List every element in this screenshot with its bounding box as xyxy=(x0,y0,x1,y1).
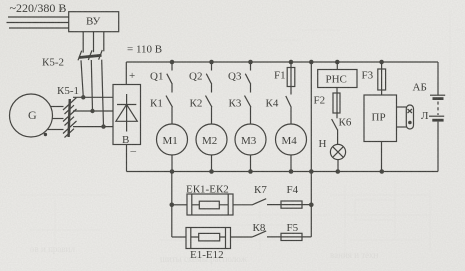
node M3 bottom xyxy=(248,169,253,174)
wire battery top xyxy=(437,62,439,95)
breaker Q1 xyxy=(167,62,173,93)
node F1 top xyxy=(289,60,294,65)
wire PR to bus xyxy=(381,142,383,172)
node F3 top xyxy=(379,60,384,65)
wire phase B input xyxy=(7,22,69,24)
node Q2 top xyxy=(209,60,214,65)
generator G xyxy=(10,94,53,137)
contact K3 xyxy=(245,96,252,124)
node M2 bottom xyxy=(209,169,214,174)
fuse F2 xyxy=(336,88,338,119)
wire to heater E xyxy=(172,236,186,238)
node heater left mid xyxy=(170,203,175,208)
scan noise overlay xyxy=(0,0,1,1)
wire phase C input xyxy=(9,27,69,29)
rectifier unit VU box xyxy=(69,12,119,32)
wire M4 to bus xyxy=(290,155,292,172)
breaker Q3 xyxy=(245,62,251,93)
wire G phase 2 stub xyxy=(53,118,64,120)
wire G phase 1 stub xyxy=(51,106,64,108)
wire PR to connector top xyxy=(397,106,407,108)
node heater feed top xyxy=(309,60,314,65)
wire heater left vertical xyxy=(171,172,173,238)
contactor K5-2 blade 3 xyxy=(99,50,103,60)
wire EK to K7 xyxy=(233,204,252,206)
contactor K5-2 blade 1 xyxy=(78,51,82,61)
rectifier B box xyxy=(113,85,141,145)
battery dashed link xyxy=(437,102,439,116)
contact K8 xyxy=(252,231,266,237)
fuse F1 xyxy=(290,62,292,87)
wire heater feed vertical xyxy=(310,62,312,205)
lamp H xyxy=(330,144,345,159)
wire VU output 3 xyxy=(103,32,105,52)
contactor K5-1 blade 2 xyxy=(63,109,77,126)
contact K1 xyxy=(166,96,173,124)
motor M4 xyxy=(276,124,307,155)
fuse F5 xyxy=(267,205,311,237)
relay RNS box xyxy=(318,70,357,88)
motor M2 xyxy=(196,124,227,155)
node lamp bottom xyxy=(336,169,341,174)
node F4 right xyxy=(309,203,314,208)
wire top bus xyxy=(126,61,438,63)
wire K5-2 pole 3 down xyxy=(102,60,104,127)
wire K5-2 pole 2 down xyxy=(91,60,92,111)
node Q3 top xyxy=(248,60,253,65)
node junction 2 xyxy=(90,109,94,113)
converter PR box xyxy=(364,95,397,142)
wire RNS stub xyxy=(336,62,338,70)
node junction 3 xyxy=(101,124,105,128)
wire phase A input xyxy=(8,16,69,18)
wire G phase 3 stub xyxy=(48,129,64,131)
connector X plug xyxy=(406,105,413,129)
wire M3 to bus xyxy=(250,155,252,172)
node PR bottom xyxy=(380,169,385,174)
node M1 bottom xyxy=(170,169,175,174)
wire M1 to bus xyxy=(171,155,173,172)
wire bottom bus xyxy=(127,171,439,173)
wire VU output 2 xyxy=(93,32,95,53)
wire E to K8 xyxy=(231,236,253,238)
wire K5-2 pole 1 down xyxy=(81,60,83,97)
heater EK1-EK2 xyxy=(187,194,233,215)
node heater feed crossing bus xyxy=(309,169,314,174)
fuse F4 xyxy=(267,204,311,206)
contact K2 xyxy=(206,96,213,124)
wire M2 to bus xyxy=(211,155,213,172)
wire to rectifier line 1 xyxy=(73,96,113,98)
heater E1-E12 xyxy=(186,228,231,249)
contact K7 xyxy=(252,199,266,205)
wire battery bottom xyxy=(437,122,439,172)
contact K4 xyxy=(286,87,292,125)
node on G circle rim xyxy=(44,133,47,136)
breaker Q2 xyxy=(206,62,212,93)
diode symbol xyxy=(116,94,137,132)
node Q1 top xyxy=(170,60,175,65)
battery AB cell 1 xyxy=(430,94,445,96)
battery cell 2 xyxy=(429,115,444,117)
wire VU output 1 xyxy=(82,32,84,53)
wire B minus to bottom bus xyxy=(126,145,128,172)
wire to rectifier line 3 xyxy=(73,126,113,128)
wire to rectifier line 2 xyxy=(73,110,113,112)
contactor K5-1 link bar xyxy=(69,99,70,137)
contactor K5-2 link bar xyxy=(79,55,102,57)
wire lamp to bus xyxy=(337,160,339,172)
ink speck near VU xyxy=(60,8,63,11)
wire PR to connector bottom xyxy=(397,126,407,128)
wire to heater EK xyxy=(172,204,187,206)
contact K6 xyxy=(332,119,338,145)
wire B plus to top bus xyxy=(125,62,127,85)
contactor K5-1 blade 3 xyxy=(63,121,77,138)
node junction 1 xyxy=(81,95,85,99)
motor M1 xyxy=(157,124,188,155)
node RNS top xyxy=(335,60,340,65)
contactor K5-1 blade 1 xyxy=(63,98,77,115)
motor M3 xyxy=(235,124,266,155)
fuse F3 xyxy=(381,62,383,95)
contactor K5-2 blade 2 xyxy=(88,50,92,60)
node M4 bottom xyxy=(289,169,294,174)
